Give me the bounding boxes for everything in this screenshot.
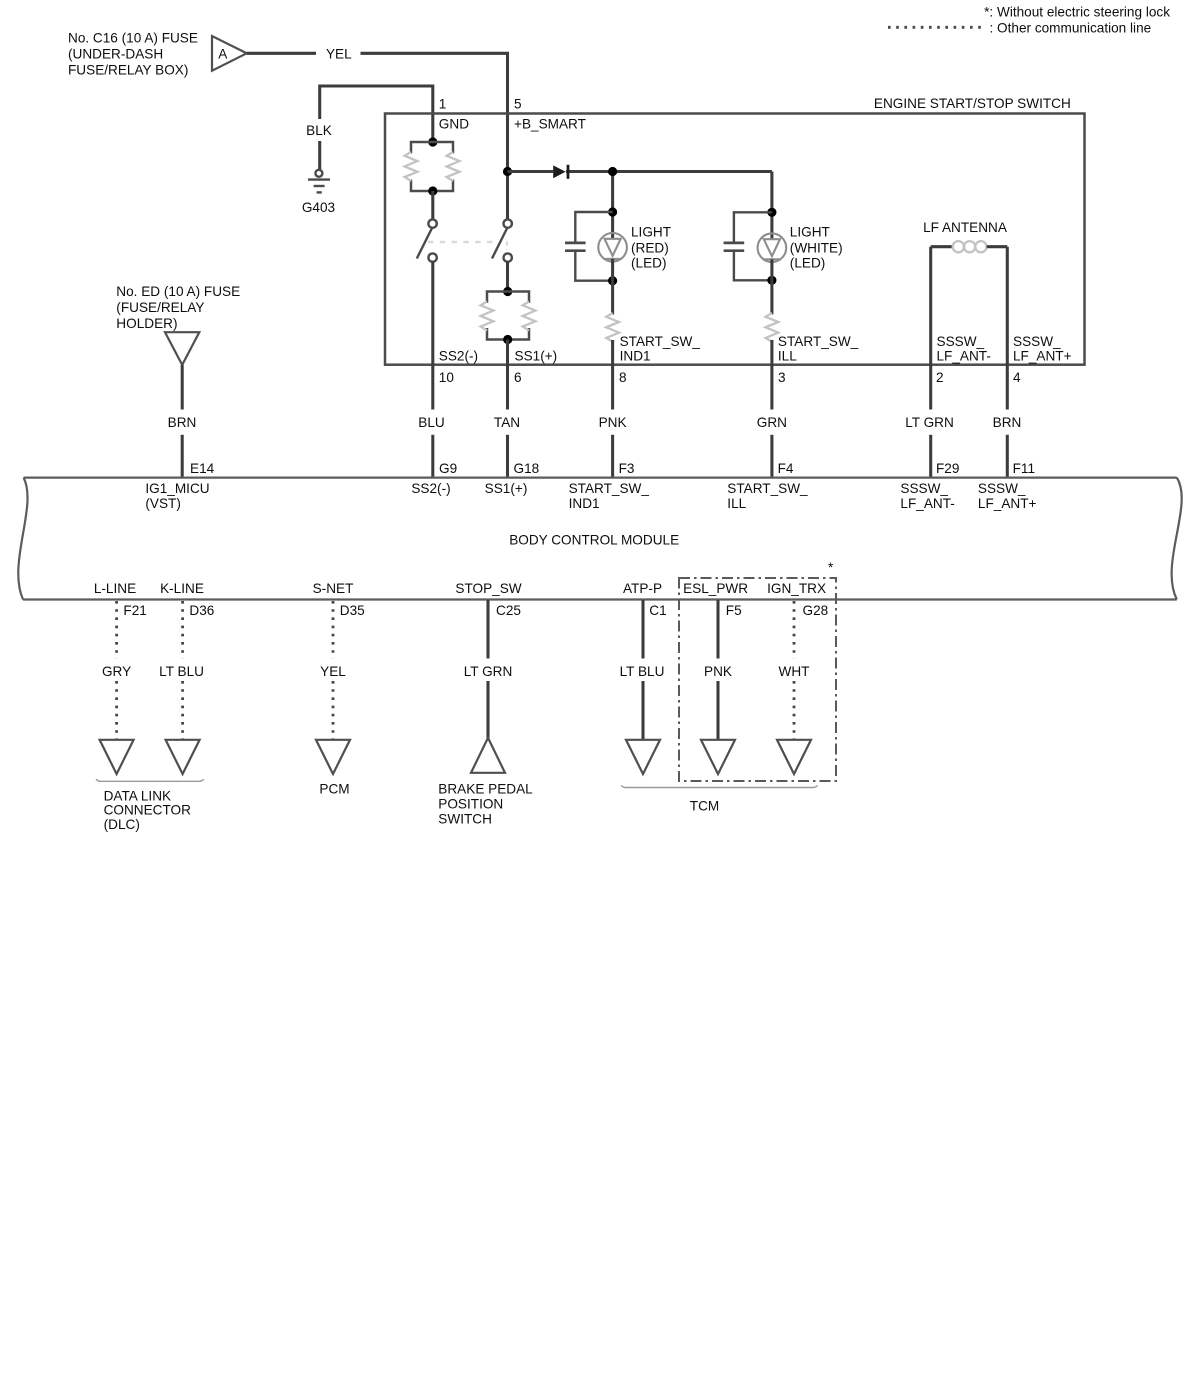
svg-text:PCM: PCM: [319, 781, 349, 796]
svg-text:G9: G9: [439, 461, 457, 476]
resistor zigzag right (GND pair): [447, 152, 460, 181]
svg-text:HOLDER): HOLDER): [116, 316, 177, 331]
connector triangle TCM-2: [701, 740, 735, 774]
svg-text:IND1: IND1: [569, 496, 600, 511]
node dot GND resistor top: [428, 137, 437, 146]
svg-text:L-LINE: L-LINE: [94, 581, 136, 596]
svg-text:3: 3: [778, 370, 786, 385]
wire STOP_SW solid: [486, 600, 489, 739]
wire resistor IND1 to BCM (gap for PNK): [611, 340, 614, 478]
connector A triangle: [212, 36, 247, 71]
svg-text:(LED): (LED): [790, 256, 826, 271]
wire S-NET dotted: [332, 601, 335, 739]
node dot +B_SMART branch: [503, 167, 512, 176]
svg-text:START_SW_: START_SW_: [727, 481, 808, 496]
node dot white cap bottom: [767, 276, 776, 285]
svg-text:IND1: IND1: [620, 348, 651, 363]
svg-text:YEL: YEL: [326, 47, 352, 62]
ground G403: [302, 170, 335, 215]
label START_SW_IND1: [620, 334, 701, 364]
svg-text:SSSW_: SSSW_: [900, 481, 948, 496]
svg-text:POSITION: POSITION: [438, 796, 503, 811]
label BRAKE PEDAL POSITION SWITCH: [438, 781, 533, 826]
svg-text:BRN: BRN: [168, 415, 197, 430]
svg-text:LT GRN: LT GRN: [464, 664, 513, 679]
svg-text:F3: F3: [619, 461, 635, 476]
svg-text:4: 4: [1013, 370, 1021, 385]
svg-text:F21: F21: [123, 603, 146, 618]
wire LF_ANT- leg to BCM (gap for LT GRN): [929, 247, 932, 478]
wire SS1 lower to resistor pair: [506, 262, 509, 292]
pin label IG1_MICU (VST): [145, 481, 209, 511]
wire +B_SMART to LEDs: [508, 170, 554, 173]
label LIGHT (RED) (LED): [631, 224, 671, 270]
svg-text:6: 6: [514, 370, 522, 385]
pin label START_SW_IND1 BCM: [569, 481, 650, 511]
switch SS1: [492, 219, 512, 261]
diode D1: [553, 165, 568, 179]
wire +B to LED red: [611, 172, 614, 239]
antenna coil L1: [931, 241, 1008, 252]
svg-text:IGN_TRX: IGN_TRX: [767, 581, 826, 596]
wire +B to LED white: [770, 172, 773, 239]
connector triangle DLC-2: [166, 740, 200, 774]
svg-text:SS1(+): SS1(+): [485, 481, 528, 496]
svg-text:S-NET: S-NET: [313, 581, 354, 596]
svg-text:C1: C1: [649, 603, 666, 618]
svg-text:G18: G18: [514, 461, 540, 476]
svg-text:D35: D35: [340, 603, 365, 618]
node dot red cap top: [608, 207, 617, 216]
svg-text:SSSW_: SSSW_: [937, 334, 985, 349]
pin label SSSW_LF_ANT+ BCM: [978, 481, 1037, 511]
svg-text:*: Without electric steering l: *: Without electric steering lock: [984, 5, 1170, 20]
wire K-LINE dotted: [181, 601, 184, 739]
svg-text:8: 8: [619, 370, 627, 385]
dash-dot box TCM esl: [679, 560, 836, 781]
wire YEL horizontal: [247, 52, 316, 55]
svg-text:SS1(+): SS1(+): [515, 348, 558, 363]
pin label START_SW_ILL BCM: [727, 481, 808, 511]
svg-text:SSSW_: SSSW_: [978, 481, 1026, 496]
svg-text:(FUSE/RELAY: (FUSE/RELAY: [116, 300, 204, 315]
node dot red cap bottom: [608, 276, 617, 285]
node dot SS1 resistor bottom: [503, 335, 512, 344]
svg-text:YEL: YEL: [320, 664, 346, 679]
svg-text:GRY: GRY: [102, 664, 131, 679]
svg-text:SSSW_: SSSW_: [1013, 334, 1061, 349]
bracket TCM: [621, 786, 817, 788]
svg-text:F4: F4: [778, 461, 794, 476]
connector triangle brake pedal: [471, 738, 505, 773]
node dot white cap top: [767, 208, 776, 217]
svg-text:START_SW_: START_SW_: [569, 481, 650, 496]
svg-text:CONNECTOR: CONNECTOR: [104, 803, 192, 818]
resistor zigzag left (SS1 pair): [481, 302, 494, 331]
svg-text:ESL_PWR: ESL_PWR: [683, 581, 748, 596]
connector triangle TCM-1: [626, 740, 660, 774]
svg-text:G403: G403: [302, 200, 335, 215]
svg-text:FUSE/RELAY BOX): FUSE/RELAY BOX): [68, 62, 188, 77]
resistor pair R-SS1 frame: [487, 292, 529, 340]
svg-text:GND: GND: [439, 117, 469, 132]
resistor pair R-GND frame: [411, 142, 453, 191]
connector triangle PCM: [316, 740, 350, 774]
svg-text:TAN: TAN: [494, 415, 520, 430]
svg-text:(LED): (LED): [631, 256, 667, 271]
svg-text:(WHITE): (WHITE): [790, 241, 843, 256]
svg-text:F11: F11: [1013, 461, 1035, 476]
svg-text:LIGHT: LIGHT: [631, 224, 671, 239]
svg-text:SS2(-): SS2(-): [411, 481, 450, 496]
svg-text:5: 5: [514, 97, 522, 112]
svg-text:LF_ANT-: LF_ANT-: [937, 348, 991, 363]
wire BLK to ground: [318, 141, 321, 170]
svg-text:*: *: [828, 560, 834, 575]
svg-text:BLK: BLK: [306, 123, 332, 138]
svg-text:PNK: PNK: [704, 664, 732, 679]
resistor START_SW_IND1: [606, 313, 619, 342]
svg-text:: Other communication line: : Other communication line: [990, 21, 1152, 36]
svg-text:10: 10: [439, 370, 455, 385]
svg-text:BLU: BLU: [418, 415, 444, 430]
node dot SS1 resistor top: [503, 287, 512, 296]
svg-text:LT GRN: LT GRN: [905, 415, 954, 430]
svg-text:C25: C25: [496, 603, 521, 618]
wire L-LINE dotted: [115, 601, 118, 739]
wire LF_ANT+ leg to BCM (gap for BRN): [1006, 247, 1009, 478]
wire LED red to resistor: [611, 259, 614, 315]
wire ED fuse to BCM (gap for BRN): [181, 365, 184, 478]
legend dotted sample line: [888, 26, 986, 29]
wire SS1 to BCM (gap for TAN): [506, 340, 509, 478]
svg-text:BRN: BRN: [993, 415, 1022, 430]
svg-text:F5: F5: [726, 603, 742, 618]
svg-text:F29: F29: [936, 461, 959, 476]
svg-text:SS2(-): SS2(-): [439, 348, 478, 363]
svg-text:A: A: [218, 47, 228, 62]
svg-text:ILL: ILL: [778, 348, 797, 363]
label DATA LINK CONNECTOR (DLC): [104, 789, 192, 832]
svg-text:D36: D36: [189, 603, 214, 618]
svg-text:(VST): (VST): [145, 496, 181, 511]
svg-text:2: 2: [936, 370, 944, 385]
label START_SW_ILL: [778, 334, 859, 364]
svg-text:(UNDER-DASH: (UNDER-DASH: [68, 46, 163, 61]
capacitor C-red loop: [565, 212, 613, 281]
wire ESL_PWR solid: [716, 600, 719, 739]
svg-text:E14: E14: [190, 461, 215, 476]
LED white lamp symbol: [758, 233, 787, 262]
svg-text:G28: G28: [803, 603, 829, 618]
resistor START_SW_ILL: [766, 313, 779, 342]
svg-text:LF_ANT+: LF_ANT+: [978, 496, 1037, 511]
svg-text:WHT: WHT: [779, 664, 810, 679]
svg-text:PNK: PNK: [599, 415, 627, 430]
svg-text:LF_ANT+: LF_ANT+: [1013, 348, 1072, 363]
pin 5 label: [514, 97, 586, 132]
svg-text:STOP_SW: STOP_SW: [455, 581, 521, 596]
label LIGHT (WHITE) (LED): [790, 225, 843, 271]
connector ED triangle: [165, 332, 199, 365]
wire LED white to resistor: [770, 259, 773, 314]
svg-text:LT BLU: LT BLU: [620, 664, 665, 679]
pin label SSSW_LF_ANT- BCM: [900, 481, 954, 511]
wire resistor to switch SS2: [431, 191, 434, 219]
switch SS2: [417, 219, 437, 261]
svg-text:ENGINE START/STOP SWITCH: ENGINE START/STOP SWITCH: [874, 96, 1071, 111]
legend note star: [984, 5, 1170, 20]
fuse label No. C16: [68, 30, 198, 77]
svg-text:TCM: TCM: [690, 798, 719, 813]
svg-text:START_SW_: START_SW_: [778, 334, 859, 349]
wire ATP-P solid: [641, 600, 644, 739]
wire IGN_TRX dotted: [793, 601, 796, 739]
fuse label No. ED: [116, 284, 240, 331]
capacitor C-white loop: [724, 212, 772, 280]
svg-text:GRN: GRN: [757, 415, 787, 430]
svg-text:1: 1: [439, 97, 447, 112]
wire resistor ILL to BCM (gap for GRN): [770, 340, 773, 478]
resistor zigzag left (GND pair): [405, 152, 418, 181]
svg-text:(DLC): (DLC): [104, 817, 140, 832]
svg-text:(RED): (RED): [631, 240, 669, 255]
svg-text:+B_SMART: +B_SMART: [514, 117, 586, 132]
label SSSW_LF_ANT+: [1013, 334, 1072, 364]
svg-text:ATP-P: ATP-P: [623, 581, 662, 596]
connector triangle TCM-3: [777, 740, 811, 774]
svg-text:LIGHT: LIGHT: [790, 225, 830, 240]
svg-text:No. C16 (10 A) FUSE: No. C16 (10 A) FUSE: [68, 30, 198, 45]
resistor zigzag right (SS1 pair): [523, 302, 536, 331]
svg-text:SWITCH: SWITCH: [438, 811, 492, 826]
LED red lamp symbol: [598, 233, 627, 262]
node dot GND resistor bottom: [428, 186, 437, 195]
component box engine start/stop switch: [385, 114, 1085, 365]
svg-text:LT BLU: LT BLU: [159, 664, 204, 679]
svg-text:IG1_MICU: IG1_MICU: [145, 481, 209, 496]
svg-text:K-LINE: K-LINE: [160, 581, 204, 596]
svg-text:No. ED (10 A) FUSE: No. ED (10 A) FUSE: [116, 284, 240, 299]
svg-text:START_SW_: START_SW_: [620, 334, 701, 349]
pin 1 label: [439, 97, 469, 132]
label SSSW_LF_ANT-: [937, 334, 991, 364]
svg-text:LF_ANT-: LF_ANT-: [900, 496, 954, 511]
wire SS2 lower to BCM (gap for BLU): [431, 262, 434, 478]
switch link dashed: [428, 242, 507, 251]
svg-text:LF ANTENNA: LF ANTENNA: [923, 220, 1008, 235]
connector triangle DLC-1: [100, 740, 134, 774]
bracket DLC: [96, 779, 204, 781]
node dot light red top junction: [608, 167, 617, 176]
wire YEL to +B_SMART pin 5: [361, 53, 508, 219]
svg-text:DATA LINK: DATA LINK: [104, 789, 171, 804]
svg-text:BODY CONTROL MODULE: BODY CONTROL MODULE: [509, 532, 679, 547]
BCM outline: [18, 478, 1181, 600]
svg-text:BRAKE PEDAL: BRAKE PEDAL: [438, 781, 533, 796]
svg-text:ILL: ILL: [727, 496, 746, 511]
wire GND branch n-shape: [320, 86, 433, 142]
